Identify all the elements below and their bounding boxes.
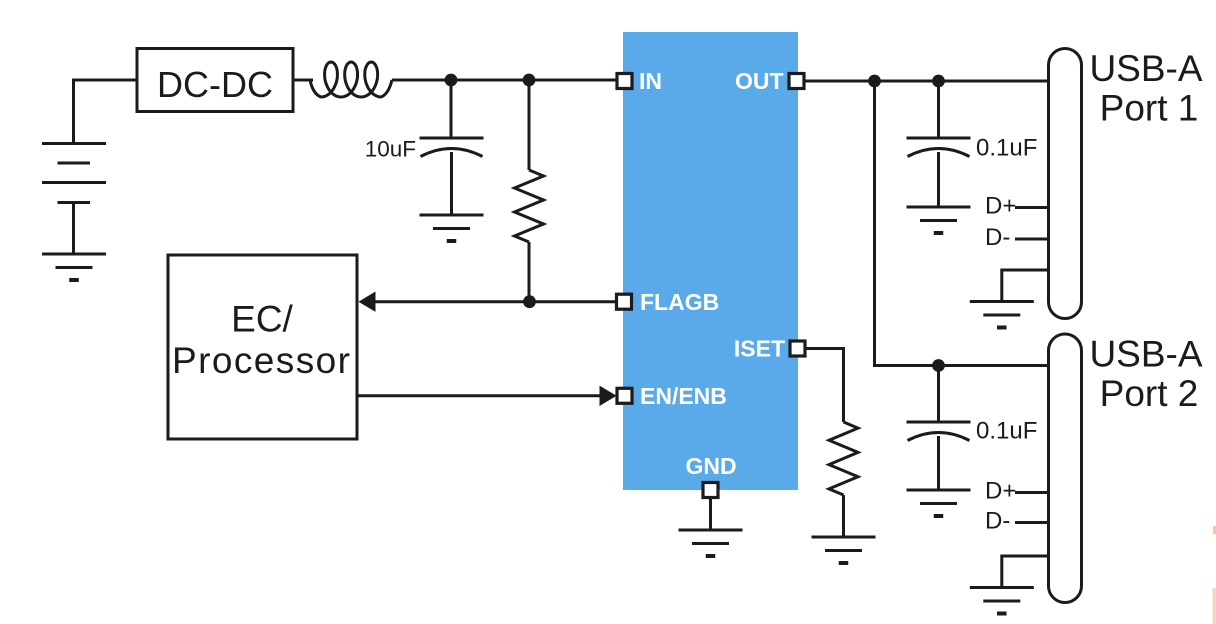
svg-text:0.1uF: 0.1uF	[976, 418, 1037, 445]
wire	[842, 495, 845, 537]
svg-text:EC/: EC/	[231, 299, 293, 340]
wire FLAGB net	[372, 300, 617, 303]
svg-text:Processor: Processor	[172, 340, 350, 381]
wire	[709, 498, 712, 530]
node junction	[868, 75, 881, 88]
ground	[907, 490, 971, 516]
ground	[970, 302, 1034, 328]
svg-text:Port 1: Port 1	[1100, 88, 1199, 129]
svg-text:Port 2: Port 2	[1100, 373, 1199, 414]
USB-A Port 1 connector	[1049, 49, 1082, 319]
ground	[42, 254, 106, 280]
wire to port 2	[875, 81, 1050, 366]
inductor L1	[310, 62, 392, 97]
pin OUT	[789, 74, 804, 89]
svg-text:FLAGB: FLAGB	[640, 289, 719, 315]
wire	[392, 79, 616, 82]
node junction	[932, 359, 945, 372]
svg-text:EN/ENB: EN/ENB	[640, 383, 727, 409]
pin FLAGB	[617, 294, 632, 309]
node junction	[523, 295, 536, 308]
wire D-	[1015, 521, 1049, 524]
scan artifact right edge	[1213, 588, 1216, 624]
wire D-	[1015, 238, 1049, 241]
wire connector shield	[1002, 556, 1049, 588]
pin GND	[703, 483, 718, 498]
svg-text:D-: D-	[985, 508, 1010, 535]
wire OUT net	[805, 80, 1049, 83]
svg-text:OUT: OUT	[735, 68, 784, 94]
wire D+	[1015, 491, 1049, 494]
svg-text:10uF: 10uF	[365, 137, 416, 162]
arrowhead into EN/ENB pin	[600, 386, 617, 406]
arrowhead into EC/Processor	[359, 292, 376, 312]
svg-text:D+: D+	[985, 478, 1016, 505]
wire D+	[1015, 206, 1049, 209]
DC-DC converter	[137, 49, 293, 112]
wire	[293, 79, 313, 82]
svg-text:ISET: ISET	[734, 336, 785, 362]
node junction	[445, 74, 458, 87]
wire	[74, 80, 138, 143]
capacitor C3 0.1uF	[937, 366, 940, 422]
label USB-A Port 2	[1089, 334, 1202, 415]
svg-text:USB-A: USB-A	[1089, 48, 1202, 89]
svg-text:GND: GND	[685, 453, 736, 479]
wire	[450, 80, 453, 137]
IC U1 (power switch)	[623, 32, 798, 490]
pin EN/ENB	[617, 388, 632, 403]
svg-text:DC-DC: DC-DC	[157, 64, 273, 105]
svg-text:IN: IN	[639, 68, 662, 94]
USB-A Port 2 connector	[1049, 334, 1082, 603]
ground	[907, 207, 971, 233]
resistor R2 (ISET)	[829, 422, 858, 495]
battery B1	[42, 144, 106, 255]
pin IN	[617, 74, 632, 89]
svg-text:D+: D+	[985, 193, 1016, 220]
resistor R1	[528, 80, 531, 170]
ground	[679, 530, 743, 556]
svg-text:D-: D-	[985, 224, 1010, 251]
wire connector shield	[1002, 270, 1049, 302]
EC/Processor box	[168, 255, 357, 439]
ground	[420, 215, 484, 241]
wire	[528, 242, 531, 302]
wire ISET net	[806, 349, 844, 423]
ground	[970, 588, 1034, 614]
pin ISET	[790, 341, 805, 356]
svg-text:0.1uF: 0.1uF	[976, 135, 1037, 162]
node junction	[932, 75, 945, 88]
wire	[450, 152, 453, 215]
ground	[812, 537, 876, 563]
capacitor C2 0.1uF	[937, 81, 940, 137]
wire EN/ENB net	[357, 394, 601, 397]
capacitor C1 10uF	[420, 138, 484, 157]
node junction	[523, 74, 536, 87]
svg-text:USB-A: USB-A	[1089, 334, 1202, 375]
label USB-A Port 1	[1089, 48, 1202, 129]
